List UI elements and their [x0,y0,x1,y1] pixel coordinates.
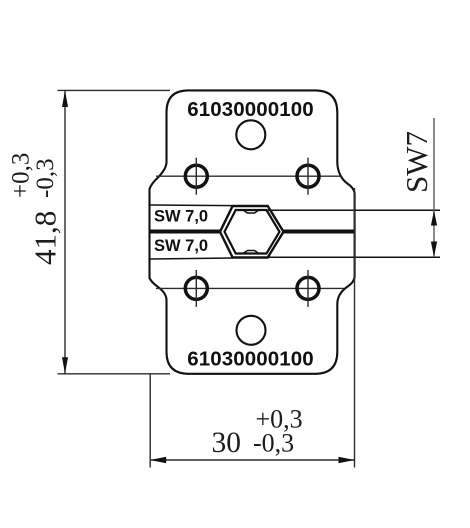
svg-text:-0,3: -0,3 [32,158,59,198]
dim 30 extension left [149,374,151,468]
dim 41,8 line [64,90,66,373]
top holes row line [156,175,342,177]
slot line lower-right [268,256,441,258]
dim 30 arrow right [339,457,355,463]
hex top notch [243,210,259,213]
dim SW7 arrow up [431,211,437,226]
svg-text:SW 7,0: SW 7,0 [154,208,208,226]
parting line left (thick) [151,230,222,234]
svg-text:-0,3: -0,3 [253,429,294,458]
svg-text:41,8: 41,8 [28,211,63,265]
svg-text:61030000100: 61030000100 [187,98,314,121]
dim 30 extension right [354,188,356,468]
slot line lower-left [151,258,234,259]
hex bottom notch [243,251,259,254]
dim 30 line [150,459,354,461]
svg-text:SW7: SW7 [399,131,434,193]
slot line upper-right [267,209,441,211]
dim SW7 line [433,118,435,257]
dim SW7 arrow down [431,242,437,258]
svg-text:SW 7,0: SW 7,0 [154,237,208,255]
dim 41,8 arrow up [62,90,68,107]
dim 41,8 extension top [58,89,171,91]
svg-text:61030000100: 61030000100 [187,347,314,370]
top center circle [236,120,265,149]
svg-text:30: 30 [212,427,242,459]
hole bottom-right [297,277,319,299]
bottom center circle [237,316,266,345]
svg-text:+0,3: +0,3 [8,153,35,198]
slot line upper-left [151,204,233,207]
hex inner [225,210,280,254]
bottom holes row line [156,287,344,289]
dim 30 arrow left [150,457,166,463]
hex outer [220,206,284,258]
parting line right (thick) [283,230,354,234]
dim 41,8 arrow down [62,357,68,374]
hole bottom-left [185,277,207,299]
dim 41,8 extension bottom [58,373,171,375]
part outline (crimp die plate) [150,90,355,373]
hole top-right [297,165,319,187]
hole top-left [185,165,207,187]
